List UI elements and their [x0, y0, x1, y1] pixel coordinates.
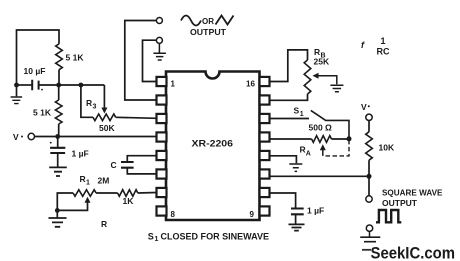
label R1 [80, 174, 91, 187]
node junction (57.7,136.5) [55, 134, 60, 139]
svg-text:1K: 1K [123, 196, 135, 206]
svg-text:S: S [294, 106, 300, 116]
wire top-left feedback loop [17, 30, 60, 84]
label OUTPUT (square wave) [382, 198, 418, 208]
label f = 1/RC formula [361, 36, 390, 57]
switch S1 [270, 110, 350, 138]
pin 8 (left) [157, 206, 167, 215]
pin 5 (left) [157, 151, 167, 160]
pin 13 (right) [260, 132, 270, 141]
capacitor C (timing) [121, 156, 157, 174]
pin 9 (right) [260, 206, 270, 215]
label OUTPUT (sine/triangle) [190, 27, 227, 37]
svg-text:S: S [148, 231, 154, 241]
label RB [314, 47, 326, 60]
wiper arrow RA [320, 141, 349, 156]
svg-text:OUTPUT: OUTPUT [190, 27, 227, 37]
svg-text:1: 1 [381, 36, 386, 46]
svg-text:5 1K: 5 1K [66, 53, 85, 63]
ground (pin 12) [270, 156, 303, 172]
pin 2 (left) [157, 95, 167, 104]
svg-text:OR: OR [202, 17, 214, 26]
svg-text:R: R [86, 98, 92, 108]
label 1K [123, 196, 135, 206]
label 500 ohm [309, 123, 333, 133]
svg-text:8: 8 [171, 210, 176, 219]
svg-text:R: R [314, 47, 320, 57]
label 50K [99, 123, 115, 133]
terminal grounded (circle 2) [143, 37, 163, 81]
svg-text:9: 9 [250, 210, 255, 219]
svg-text:500 Ω: 500 Ω [309, 123, 333, 133]
node junction (57.3,210.4) [55, 208, 60, 213]
terminal V+ (right) [361, 102, 372, 121]
label 10K [379, 143, 395, 153]
label C [111, 160, 117, 170]
label OR [202, 17, 214, 26]
wiper arrow RB to ground [313, 73, 344, 92]
capacitor 1uF (pin 10) [270, 193, 305, 231]
svg-text:V: V [13, 132, 19, 142]
ground (terminal circle 2) [153, 43, 166, 60]
svg-text:C: C [111, 160, 117, 170]
node junction (80.9,85) [79, 83, 84, 88]
svg-text:10 µF: 10 µF [24, 66, 46, 76]
label 10 uF [24, 66, 46, 76]
svg-text:V: V [361, 102, 367, 112]
wire pin 11 to square wave node [270, 175, 370, 177]
pin 15 (right) [260, 95, 270, 104]
svg-text:16: 16 [246, 80, 255, 89]
pin number 9 [250, 210, 255, 219]
label 5 1K (upper) [66, 53, 85, 63]
capacitor 1uF (left bypass) [50, 137, 65, 167]
resistor R 5.1K upper [56, 44, 63, 85]
label R [101, 219, 107, 229]
svg-text:50K: 50K [99, 123, 115, 133]
caption S1 CLOSED FOR SINEWAVE [148, 231, 269, 243]
svg-text:1: 1 [155, 236, 159, 243]
resistor 10K [366, 121, 373, 177]
ground (R1) [49, 210, 67, 226]
label 2M [98, 176, 110, 186]
pin 4 (left) [157, 132, 167, 141]
svg-text:10K: 10K [379, 143, 395, 153]
label S1 [294, 106, 304, 119]
svg-text:R: R [101, 219, 107, 229]
svg-text:1: 1 [300, 111, 304, 118]
potentiometer RA 500 ohm [270, 136, 350, 143]
svg-text:XR-2206: XR-2206 [192, 139, 234, 150]
svg-text:A: A [306, 151, 311, 158]
label SQUAREWAVE [382, 188, 443, 198]
terminal ground (scope reference) [360, 225, 380, 242]
pin 11 (right) [260, 169, 270, 178]
svg-text:1 µF: 1 µF [307, 206, 324, 216]
label 1 uF (right) [307, 206, 324, 216]
svg-text:3: 3 [93, 104, 97, 111]
pin 6 (left) [157, 169, 167, 178]
label 25K [314, 57, 330, 67]
ground (left bypass cap) [49, 167, 67, 176]
ground (top-left) [11, 85, 23, 104]
svg-text:SQUARE WAVE: SQUARE WAVE [382, 188, 443, 198]
svg-text:1: 1 [86, 180, 90, 187]
svg-text:1 µF: 1 µF [72, 149, 89, 159]
pin 14 (right) [260, 114, 270, 123]
pin number 8 [171, 210, 176, 219]
pin 16 (right) [260, 77, 270, 86]
pin number 16 [246, 80, 255, 89]
resistor R 5.1K lower [55, 85, 62, 137]
svg-text:5 1K: 5 1K [33, 108, 52, 118]
svg-text:OUTPUT: OUTPUT [382, 198, 418, 208]
pin number 1 [171, 80, 176, 89]
potentiometer R1 2M [57, 190, 117, 211]
capacitor C1 10uF [17, 80, 59, 91]
svg-text:25K: 25K [314, 57, 330, 67]
label 5 1K (lower) [33, 108, 52, 118]
svg-text:RC: RC [377, 47, 390, 57]
watermark SeekIC.com [362, 245, 455, 261]
sine wave symbol [181, 16, 201, 26]
node junction (349,138.8) [347, 136, 352, 141]
pin 10 (right) [260, 188, 270, 197]
wire V+ rail to pin 4 [35, 136, 157, 138]
label R3 [86, 98, 97, 111]
wire junction row to R3 wiper [59, 84, 105, 86]
terminal square wave output [366, 176, 372, 202]
svg-text:1: 1 [171, 80, 176, 89]
terminal V+ (left) [13, 132, 35, 142]
node junction (58.7,85) [56, 83, 61, 88]
label 1 uF (left) [72, 149, 89, 159]
node junction (369,176.3) [367, 174, 372, 179]
svg-text:R: R [80, 174, 86, 184]
label XR-2206 [192, 139, 234, 150]
pin 7 (left) [157, 188, 167, 197]
node junction (16.5,85) [14, 83, 19, 88]
potentiometer R3 50K [81, 85, 157, 121]
pin 1 (left) [157, 77, 167, 86]
svg-text:R: R [300, 145, 306, 155]
svg-text:CLOSED FOR SINEWAVE: CLOSED FOR SINEWAVE [161, 231, 270, 241]
svg-text:SeekIC.com: SeekIC.com [371, 245, 456, 261]
potentiometer RB 25K [270, 50, 311, 100]
label RA [300, 145, 311, 158]
IC U1 XR-2206 body [166, 72, 260, 221]
terminal sine/triangle output (circle 1) [125, 18, 163, 101]
svg-text:2M: 2M [98, 176, 110, 186]
square wave symbol [376, 210, 401, 222]
pin 12 (right) [260, 151, 270, 160]
resistor 1K [118, 190, 157, 197]
pin 3 (left) [157, 114, 167, 123]
triangle wave symbol [216, 16, 234, 25]
